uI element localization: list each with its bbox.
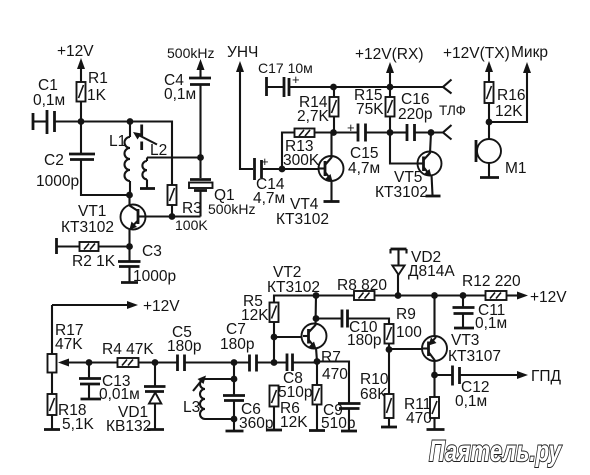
resistor R13	[282, 129, 334, 170]
svg-text:510p: 510p	[278, 384, 312, 401]
node +12V feed (bottom left)	[52, 298, 180, 315]
resistor R14	[297, 87, 339, 133]
node C10 tap	[313, 315, 320, 322]
svg-text:R2 1K: R2 1K	[72, 253, 116, 270]
svg-text:+12V(RX): +12V(RX)	[355, 46, 424, 63]
svg-text:R12 220: R12 220	[462, 273, 521, 290]
svg-text:0,1м: 0,1м	[475, 315, 507, 332]
wire VT2 base	[274, 336, 303, 338]
resistor R11	[404, 375, 445, 430]
svg-text:0,1м: 0,1м	[33, 92, 65, 109]
svg-text:Паятель.ру: Паятель.ру	[429, 435, 562, 468]
node R14 bottom	[330, 129, 337, 136]
node R15 bottom / VT5 base	[387, 129, 394, 136]
svg-text:100K: 100K	[175, 217, 208, 233]
svg-text:0,01м: 0,01м	[99, 386, 140, 403]
svg-text:C3: C3	[142, 243, 162, 260]
node wiper junction	[86, 359, 93, 366]
node C11 rail	[460, 292, 467, 299]
node VD2 rail	[395, 292, 402, 299]
capacitor C14	[253, 154, 285, 207]
svg-text:+12V: +12V	[530, 289, 567, 306]
svg-text:12K: 12K	[280, 414, 308, 431]
svg-text:R7: R7	[321, 349, 341, 366]
svg-text:1K: 1K	[87, 87, 107, 104]
resistor R8	[316, 277, 398, 300]
inductor L1	[109, 122, 133, 199]
capacitor C1	[33, 77, 81, 134]
capacitor C17	[258, 60, 334, 97]
phone jack ТЛФ lower	[443, 125, 452, 140]
L1 tuning slug arrow	[133, 125, 157, 151]
svg-text:12K: 12K	[495, 103, 523, 120]
resistor R18	[44, 394, 95, 433]
inductor L3 with trimmer arrow	[183, 363, 237, 420]
node VT2 emitter	[314, 358, 321, 365]
wire top node to L1 and corner	[81, 122, 172, 186]
svg-text:R4 47K: R4 47K	[102, 341, 154, 358]
capacitor C12	[435, 366, 562, 411]
node VT3 emitter out	[431, 372, 438, 379]
phone jack ТЛФ upper	[443, 80, 452, 94]
transistor VT4	[276, 133, 344, 229]
capacitor C2	[36, 122, 129, 196]
svg-text:КТ3102: КТ3102	[267, 279, 320, 296]
resistor R7	[309, 349, 348, 431]
svg-text:75K: 75K	[356, 101, 384, 118]
svg-text:+: +	[261, 154, 269, 169]
capacitor C13	[79, 363, 140, 404]
node A junction dots	[78, 118, 85, 125]
svg-text:R9: R9	[396, 306, 416, 323]
svg-text:R16: R16	[497, 87, 525, 104]
svg-text:510p: 510p	[321, 415, 355, 432]
svg-text:R1: R1	[88, 70, 108, 87]
svg-text:VT1: VT1	[78, 203, 106, 220]
wire base	[282, 168, 318, 170]
svg-text:КТ3102: КТ3102	[375, 184, 428, 201]
svg-text:220p: 220p	[398, 106, 432, 123]
capacitor C10	[316, 310, 389, 350]
resistor R15	[354, 87, 395, 133]
node VT2 collector rail	[313, 292, 320, 299]
svg-text:Микр: Микр	[511, 44, 548, 61]
node C7 / R5 bottom	[271, 359, 278, 366]
svg-text:КВ132: КВ132	[106, 418, 151, 435]
capacitor C8	[278, 354, 317, 402]
transistor VT2	[267, 264, 327, 362]
wire VT3 base	[389, 348, 422, 350]
resistor R1	[77, 70, 108, 122]
node R14 top	[330, 84, 337, 91]
node collector/R3	[169, 213, 176, 220]
node VD1 top	[152, 359, 159, 366]
capacitor C7	[220, 321, 286, 372]
wire VT1 collector	[146, 215, 201, 217]
inductor L2	[140, 142, 167, 189]
capacitor C6	[223, 379, 273, 432]
svg-text:C17 10м: C17 10м	[258, 60, 313, 76]
svg-text:1000p: 1000p	[133, 268, 176, 285]
resistor R2	[57, 238, 130, 270]
node VT2 base tap	[271, 334, 278, 341]
svg-text:+12V: +12V	[143, 298, 180, 315]
node +12V supply (top left)	[57, 43, 94, 82]
microphone M1	[476, 139, 527, 178]
zener VD2	[391, 249, 456, 296]
capacitor C4	[164, 45, 214, 158]
potentiometer R17	[48, 305, 90, 394]
svg-text:500kHz: 500kHz	[208, 201, 255, 217]
svg-text:+12V: +12V	[57, 43, 94, 60]
svg-text:0,1м: 0,1м	[455, 393, 487, 410]
svg-text:ТЛФ: ТЛФ	[439, 103, 466, 118]
svg-text:180p: 180p	[347, 332, 381, 349]
svg-text:180p: 180p	[167, 338, 201, 355]
svg-text:300K: 300K	[283, 152, 320, 169]
resistor R4	[89, 341, 177, 367]
resistor R5	[241, 293, 316, 363]
+12V(RX) rail wire	[334, 86, 444, 88]
svg-text:470: 470	[322, 366, 348, 383]
node VT1 emitter	[126, 243, 133, 250]
node VT5 collector	[428, 129, 435, 136]
svg-text:1000p: 1000p	[36, 173, 79, 190]
resistor R3	[168, 185, 209, 233]
resistor R6	[266, 386, 308, 432]
node mic junction	[486, 119, 493, 126]
resistor R9	[385, 306, 423, 350]
capacitor C9	[317, 362, 361, 433]
svg-text:+: +	[292, 72, 300, 87]
varicap VD1	[106, 363, 166, 436]
svg-text:Д814А: Д814А	[408, 263, 455, 280]
svg-text:47K: 47K	[55, 336, 83, 353]
capacitor C16	[390, 91, 443, 141]
svg-text:500kHz: 500kHz	[167, 45, 214, 61]
svg-text:100: 100	[396, 324, 422, 341]
svg-text:4,7м: 4,7м	[348, 160, 380, 177]
svg-text:C2: C2	[44, 152, 64, 169]
node VT4 base	[279, 166, 286, 173]
node R9/R10/VT3 base	[386, 346, 393, 353]
svg-text:180p: 180p	[220, 336, 254, 353]
capacitor C11	[453, 296, 508, 333]
node L3 tank top	[231, 359, 238, 366]
node +12V(TX) feed	[443, 45, 510, 82]
svg-text:5,1K: 5,1K	[62, 416, 95, 433]
svg-text:12K: 12K	[241, 307, 269, 324]
svg-text:4,7м: 4,7м	[253, 190, 285, 207]
quartz crystal Q1	[189, 158, 255, 218]
svg-text:470: 470	[406, 410, 432, 427]
rail to R12	[398, 294, 486, 296]
svg-text:ГПД: ГПД	[531, 368, 562, 385]
svg-text:VT3: VT3	[451, 332, 479, 349]
resistor R10	[360, 350, 397, 428]
node УНЧ output	[227, 44, 258, 169]
transistor VT1	[61, 195, 146, 247]
svg-text:2,7K: 2,7K	[297, 108, 330, 125]
resistor R12	[462, 273, 567, 306]
capacitor C5	[167, 324, 249, 371]
svg-text:КТ3107: КТ3107	[448, 348, 501, 365]
svg-text:УНЧ: УНЧ	[227, 44, 258, 61]
node +12V(RX) feed	[355, 46, 424, 87]
node VT3 collector rail	[431, 292, 438, 299]
svg-text:R3: R3	[182, 200, 202, 217]
svg-text:КТ3102: КТ3102	[61, 219, 114, 236]
svg-text:0,1м: 0,1м	[164, 86, 196, 103]
svg-text:+12V(TX): +12V(TX)	[443, 45, 510, 62]
capacitor C3	[118, 243, 176, 285]
transistor VT5	[375, 133, 442, 202]
svg-text:М1: М1	[505, 160, 527, 177]
node crystal top	[197, 154, 204, 161]
wire to Микр arrow	[489, 44, 548, 122]
transistor VT3	[422, 296, 501, 376]
svg-text:КТ3102: КТ3102	[276, 211, 329, 228]
svg-text:L3: L3	[183, 399, 200, 416]
capacitor C15	[334, 120, 390, 177]
wire L2 top to resonator node	[147, 156, 201, 158]
node R15 top	[387, 84, 394, 91]
resistor R16	[485, 82, 526, 139]
